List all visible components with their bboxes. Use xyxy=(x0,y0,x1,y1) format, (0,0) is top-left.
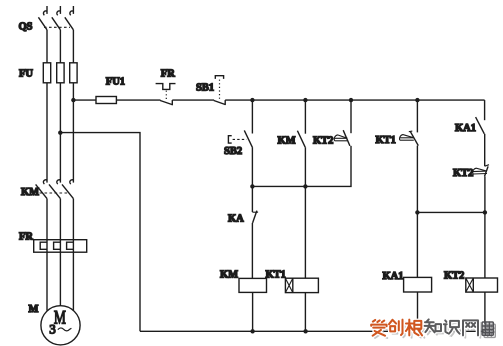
wire coil KT2 to bus xyxy=(484,292,486,331)
label SB1 xyxy=(196,82,214,93)
watermark ghost shadow xyxy=(373,322,480,338)
svg-text:KT2: KT2 xyxy=(313,136,333,147)
wire KM aux branch upper xyxy=(304,100,306,134)
wire link node D to node E xyxy=(417,211,485,213)
wire KT2 contact to link xyxy=(305,146,351,187)
watermark logo seal xyxy=(482,322,495,337)
wire KT1 contact to node D xyxy=(416,146,418,213)
wire link node A to node B xyxy=(252,185,305,187)
label QS xyxy=(19,22,33,33)
wire L3 phase line xyxy=(72,6,74,311)
label KM (main contacts) xyxy=(21,187,39,198)
contact KT2 (NO delayed-close) xyxy=(334,130,350,146)
wire control top rail xyxy=(225,99,484,101)
contact KA1 (NO) xyxy=(476,117,485,134)
wire SB2 branch upper xyxy=(251,100,253,133)
watermark white halo xyxy=(371,319,478,335)
watermark text 识 xyxy=(444,320,460,333)
wire KA1 to KT2 NC xyxy=(484,134,486,166)
wire L1 phase line xyxy=(46,6,48,311)
pushbutton SB1 (NC stop) xyxy=(214,76,225,105)
svg-text:SB2: SB2 xyxy=(224,146,242,157)
label FU1 xyxy=(106,77,125,88)
label KM (aux contact) xyxy=(278,136,296,147)
svg-text:KM: KM xyxy=(278,136,296,147)
label SB2 xyxy=(224,146,242,157)
wire coil KA1 to bus xyxy=(417,292,419,331)
label FR (contact) xyxy=(161,69,175,80)
label FR (heater) xyxy=(19,232,33,243)
label KT1 (coil) xyxy=(266,270,286,281)
watermark text 创 xyxy=(389,320,403,335)
svg-text:3: 3 xyxy=(49,321,56,336)
svg-text:KA1: KA1 xyxy=(455,123,476,134)
label M inside motor xyxy=(54,308,66,329)
fuse FU (3-pole) xyxy=(43,63,77,83)
wire node A down xyxy=(251,186,253,212)
wire KT2 branch upper xyxy=(350,100,352,133)
label KT2 (coil) xyxy=(444,270,464,281)
node B (KM/KT1 junction) xyxy=(303,184,307,188)
node E (KT2 junction) xyxy=(483,210,487,214)
motor M 3-phase xyxy=(41,306,80,345)
coil KT2 (time relay) xyxy=(466,278,498,292)
node D (KT1/KA1 junction) xyxy=(415,210,419,214)
svg-text:KA: KA xyxy=(228,214,244,225)
watermark 爱创根知识网 logo xyxy=(371,319,495,338)
node rail-KT1 branch xyxy=(415,98,419,102)
node bus-KM coil xyxy=(250,329,254,333)
label KA1 (coil) xyxy=(383,271,404,282)
label M (motor) xyxy=(29,304,39,315)
watermark text 知 xyxy=(425,319,441,332)
svg-text:FR: FR xyxy=(19,232,33,243)
watermark text 根 xyxy=(406,320,422,336)
wire KT1 branch upper xyxy=(416,100,418,132)
contactor KM main contacts (3-pole) xyxy=(36,180,74,199)
node rail-KM branch xyxy=(303,98,307,102)
wire L2 phase line xyxy=(59,6,61,306)
thermal relay FR heater element xyxy=(34,240,87,253)
svg-text:FU1: FU1 xyxy=(106,77,125,88)
svg-text:KT2: KT2 xyxy=(453,168,473,179)
label KT2 (upper contact) xyxy=(313,136,333,147)
wire coil KM to bus xyxy=(252,292,254,331)
fuse FU1 xyxy=(96,97,116,104)
wire SB2 to node A xyxy=(251,148,253,187)
contact KA (NO) xyxy=(252,211,258,223)
wire FU1 to FR contact xyxy=(116,99,160,101)
wire KA1 branch upper (rail corner) xyxy=(484,100,486,120)
wire control return (L2 to bottom bus) xyxy=(60,133,140,332)
wire KT2 NC to node E xyxy=(484,176,486,212)
contact KT1 (NO delayed-close) xyxy=(400,131,419,146)
wire node D to coil KA1 xyxy=(416,212,418,277)
wire FR to SB1 xyxy=(172,99,214,101)
node bus-KT1 coil xyxy=(303,329,307,333)
node rail-SB2 branch xyxy=(250,98,254,102)
wire control feed top xyxy=(73,99,96,101)
pushbutton SB2 (NO start) xyxy=(228,130,252,147)
node A (SB2/KA junction) xyxy=(250,184,254,188)
coil KA1 xyxy=(404,277,432,292)
wire node E to coil KT2 xyxy=(484,212,486,278)
node rail-KT2 branch xyxy=(349,98,353,102)
svg-text:KT2: KT2 xyxy=(444,270,464,281)
watermark text 爱 xyxy=(371,320,422,336)
svg-text:FR: FR xyxy=(161,69,175,80)
coil KT1 (time relay) xyxy=(285,278,318,292)
svg-text:QS: QS xyxy=(19,22,33,33)
label 3~ inside motor xyxy=(49,321,71,336)
label KT2 (NC contact) xyxy=(453,168,473,179)
label KA xyxy=(228,214,244,225)
svg-text:KM: KM xyxy=(21,187,39,198)
svg-text:KT1: KT1 xyxy=(266,270,286,281)
wire node B to coil KT1 xyxy=(304,186,306,278)
svg-text:FU: FU xyxy=(19,69,33,80)
svg-text:KM: KM xyxy=(220,270,238,281)
switch QS xyxy=(38,11,73,30)
coil KM xyxy=(239,278,267,292)
label FU xyxy=(19,69,33,80)
label KM (coil) xyxy=(220,270,238,281)
label KA1 (contact) xyxy=(455,123,476,134)
contact FR (NC, thermal relay) xyxy=(156,84,176,106)
svg-text:KA1: KA1 xyxy=(383,271,404,282)
wire KA to coil KM xyxy=(251,223,253,279)
node junction L3 to control circuit xyxy=(71,98,75,102)
watermark text 网 xyxy=(463,320,478,335)
wire bottom bus xyxy=(140,330,485,332)
label KT1 (contact) xyxy=(376,135,396,146)
node L2 to control return xyxy=(58,131,62,135)
wire coil KT1 to bus xyxy=(304,293,306,332)
contact KT2 (NC delayed-open) xyxy=(473,165,489,177)
wire KM aux to node B xyxy=(304,147,306,186)
svg-text:KT1: KT1 xyxy=(376,135,396,146)
contact KM (NO aux) xyxy=(297,131,305,148)
svg-text:M: M xyxy=(29,304,39,315)
svg-text:SB1: SB1 xyxy=(196,82,214,93)
